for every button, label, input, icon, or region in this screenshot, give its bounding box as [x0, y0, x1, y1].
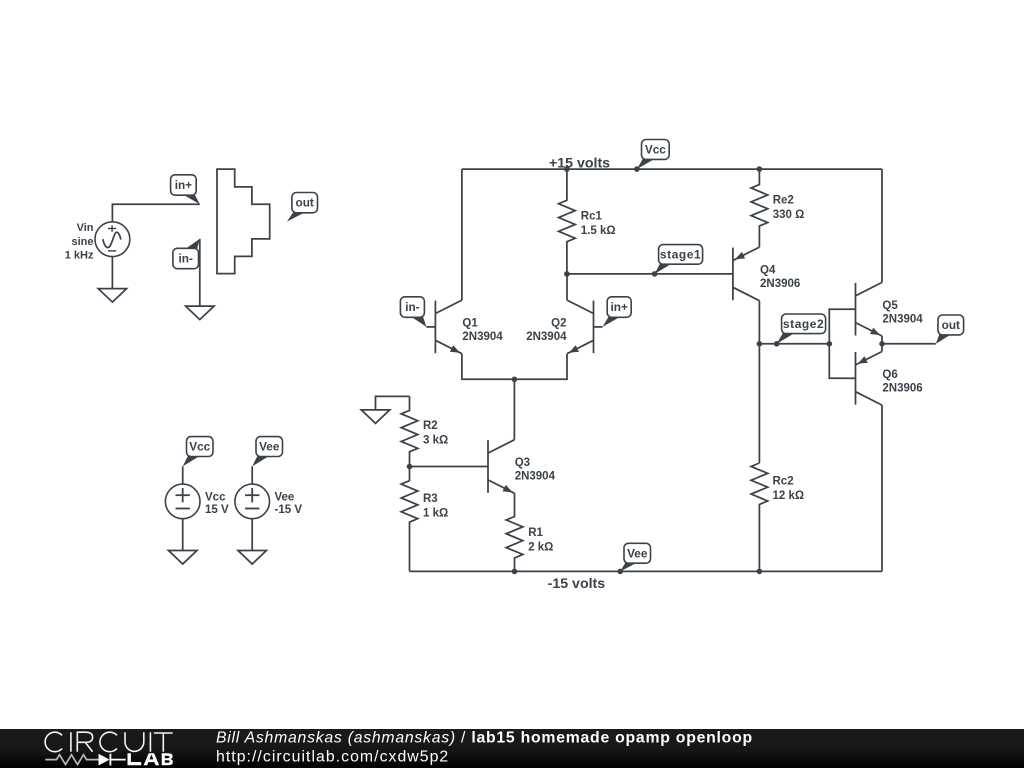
- footer bar: [0, 729, 1024, 768]
- svg-text:Rc2: Rc2: [773, 476, 794, 488]
- node R2/R3 junction: [407, 464, 413, 470]
- wire: [111, 257, 113, 289]
- svg-text:3 kΩ: 3 kΩ: [423, 434, 448, 446]
- flag out: [936, 315, 964, 344]
- svg-text:Vcc: Vcc: [645, 142, 666, 156]
- svg-text:-15 volts: -15 volts: [548, 576, 606, 592]
- wire: [182, 519, 184, 551]
- transistor Q6 (2N3906): [847, 352, 883, 406]
- svg-text:2N3906: 2N3906: [882, 382, 922, 394]
- label Q6: [882, 369, 922, 395]
- svg-text:-15 V: -15 V: [275, 504, 303, 516]
- wire Q1 collector: [461, 169, 463, 300]
- svg-text:stage2: stage2: [783, 317, 824, 331]
- wire Q3 base: [410, 466, 480, 468]
- ground: [98, 289, 126, 303]
- label Q2: [526, 318, 567, 344]
- transistor Q4 (2N3906): [724, 247, 760, 301]
- flag Vee: [252, 437, 282, 467]
- transistor Q3 (2N3904): [479, 440, 515, 494]
- node stage2 junction: [774, 341, 780, 347]
- wire: [251, 519, 253, 551]
- wire Q4 collector: [758, 301, 760, 463]
- wire: [251, 466, 253, 484]
- svg-text:Q6: Q6: [882, 369, 897, 381]
- resistor R3 (1 k&#937;): [401, 467, 448, 572]
- label Q3: [515, 457, 556, 483]
- svg-text:http://circuitlab.com/cxdw5p2: http://circuitlab.com/cxdw5p2: [216, 748, 449, 765]
- svg-text:15 V: 15 V: [205, 504, 229, 516]
- node: [512, 569, 518, 575]
- svg-text:Q5: Q5: [882, 300, 898, 312]
- svg-text:Q2: Q2: [551, 318, 566, 330]
- svg-text:Vee: Vee: [275, 491, 295, 503]
- node: [564, 271, 570, 277]
- svg-text:R3: R3: [423, 493, 438, 505]
- wire +15V rail: [462, 168, 882, 170]
- wire stage2: [759, 343, 829, 345]
- flag in+: [171, 175, 200, 204]
- svg-text:Vcc: Vcc: [189, 440, 210, 454]
- svg-text:out: out: [296, 196, 314, 210]
- flag stage2: [777, 314, 826, 344]
- svg-text:R2: R2: [423, 420, 438, 432]
- svg-text:Q4: Q4: [760, 265, 776, 277]
- flag Vee: [620, 543, 650, 571]
- svg-text:2N3904: 2N3904: [462, 331, 503, 343]
- transistor Q2 (2N3904): [567, 300, 603, 354]
- svg-text:330 Ω: 330 Ω: [773, 209, 805, 221]
- wire stage1: [567, 273, 724, 275]
- ground: [186, 306, 214, 320]
- label Q1: [462, 318, 503, 344]
- wire: [182, 466, 184, 484]
- ground: [238, 551, 266, 565]
- resistor R1 (2 k&#937;): [506, 493, 553, 571]
- node tail junction: [512, 377, 518, 383]
- resistor Rc2 (12 k&#937;): [751, 463, 804, 571]
- flag in- (Q1 base): [400, 297, 426, 327]
- node: [827, 341, 833, 347]
- flag Vcc: [637, 140, 669, 170]
- wire Q5 emitter: [881, 336, 883, 344]
- node: [757, 569, 763, 575]
- svg-text:Q3: Q3: [515, 457, 530, 469]
- node stage1 junction: [652, 271, 658, 277]
- wire Q5 collector: [881, 169, 883, 282]
- svg-text:Q1: Q1: [462, 318, 478, 330]
- label Q4: [760, 265, 800, 291]
- svg-text:+15 volts: +15 volts: [549, 155, 610, 171]
- svg-text:1 kΩ: 1 kΩ: [423, 508, 448, 520]
- block X1 (opamp macro symbol): [217, 169, 270, 274]
- svg-text:Bill Ashmanskas (ashmanskas) /: Bill Ashmanskas (ashmanskas) / lab15 hom…: [216, 730, 753, 747]
- svg-text:R1: R1: [528, 527, 543, 539]
- svg-text:Vee: Vee: [627, 546, 648, 560]
- resistor Re2 (330 &#937;): [751, 169, 804, 247]
- wire out: [882, 343, 936, 345]
- flag Vcc: [183, 437, 213, 467]
- wire -15V rail: [410, 570, 883, 572]
- node: [564, 166, 570, 172]
- wire tail: [513, 379, 515, 439]
- svg-text:Vee: Vee: [259, 440, 280, 454]
- transistor Q5 (2N3904): [847, 282, 883, 336]
- node output junction: [879, 341, 885, 347]
- svg-text:2N3904: 2N3904: [526, 331, 567, 343]
- svg-text:Rc1: Rc1: [581, 211, 603, 223]
- node Vcc junction: [634, 166, 640, 172]
- wire Q2 emitter: [514, 354, 567, 380]
- svg-text:in+: in+: [175, 178, 192, 192]
- ground: [169, 551, 197, 565]
- svg-text:Vcc: Vcc: [205, 491, 226, 503]
- flag stage1: [655, 245, 703, 274]
- node: [757, 341, 763, 347]
- flag in-: [173, 239, 200, 269]
- voltage source Vcc (15 V dc): [165, 484, 229, 519]
- node: [757, 166, 763, 172]
- voltage source Vee (-15 V dc): [235, 484, 302, 519]
- svg-text:2N3904: 2N3904: [882, 313, 923, 325]
- svg-text:stage1: stage1: [660, 247, 701, 261]
- svg-text:in+: in+: [611, 300, 628, 314]
- wire Q6 emitter: [881, 344, 883, 352]
- label Q5: [882, 300, 923, 326]
- footer attribution text: [216, 730, 753, 766]
- svg-text:2N3904: 2N3904: [515, 471, 556, 483]
- wire: [199, 239, 201, 306]
- svg-text:Vin: Vin: [77, 222, 94, 234]
- svg-text:in-: in-: [405, 300, 419, 314]
- svg-text:Re2: Re2: [773, 195, 794, 207]
- svg-text:1 kHz: 1 kHz: [65, 250, 94, 262]
- resistor Rc1 (1.5 k&#937;): [559, 169, 616, 274]
- svg-text:2 kΩ: 2 kΩ: [528, 542, 553, 554]
- wire Q1 emitter: [462, 354, 515, 380]
- CircuitLab logo: [45, 732, 173, 765]
- node Vee junction: [618, 569, 624, 575]
- ground: [361, 410, 389, 424]
- resistor R2 (3 k&#937;): [401, 396, 448, 466]
- svg-text:2N3906: 2N3906: [760, 278, 800, 290]
- svg-text:sine: sine: [71, 236, 93, 248]
- svg-text:12 kΩ: 12 kΩ: [773, 490, 805, 502]
- svg-text:out: out: [942, 318, 960, 332]
- svg-text:1.5 kΩ: 1.5 kΩ: [581, 225, 616, 237]
- voltage source V1 (Vin sine 1 kHz): [65, 222, 130, 262]
- flag in+ (Q2 base): [603, 297, 632, 327]
- wire Q6 collector: [881, 405, 883, 571]
- svg-text:in-: in-: [178, 252, 192, 266]
- flag out: [287, 193, 318, 222]
- wire Q2 collector: [566, 274, 568, 300]
- wire: [112, 204, 199, 222]
- transistor Q1 (2N3904): [426, 300, 462, 354]
- wire Q5/Q6 base tie: [829, 309, 846, 378]
- wire: [376, 396, 410, 410]
